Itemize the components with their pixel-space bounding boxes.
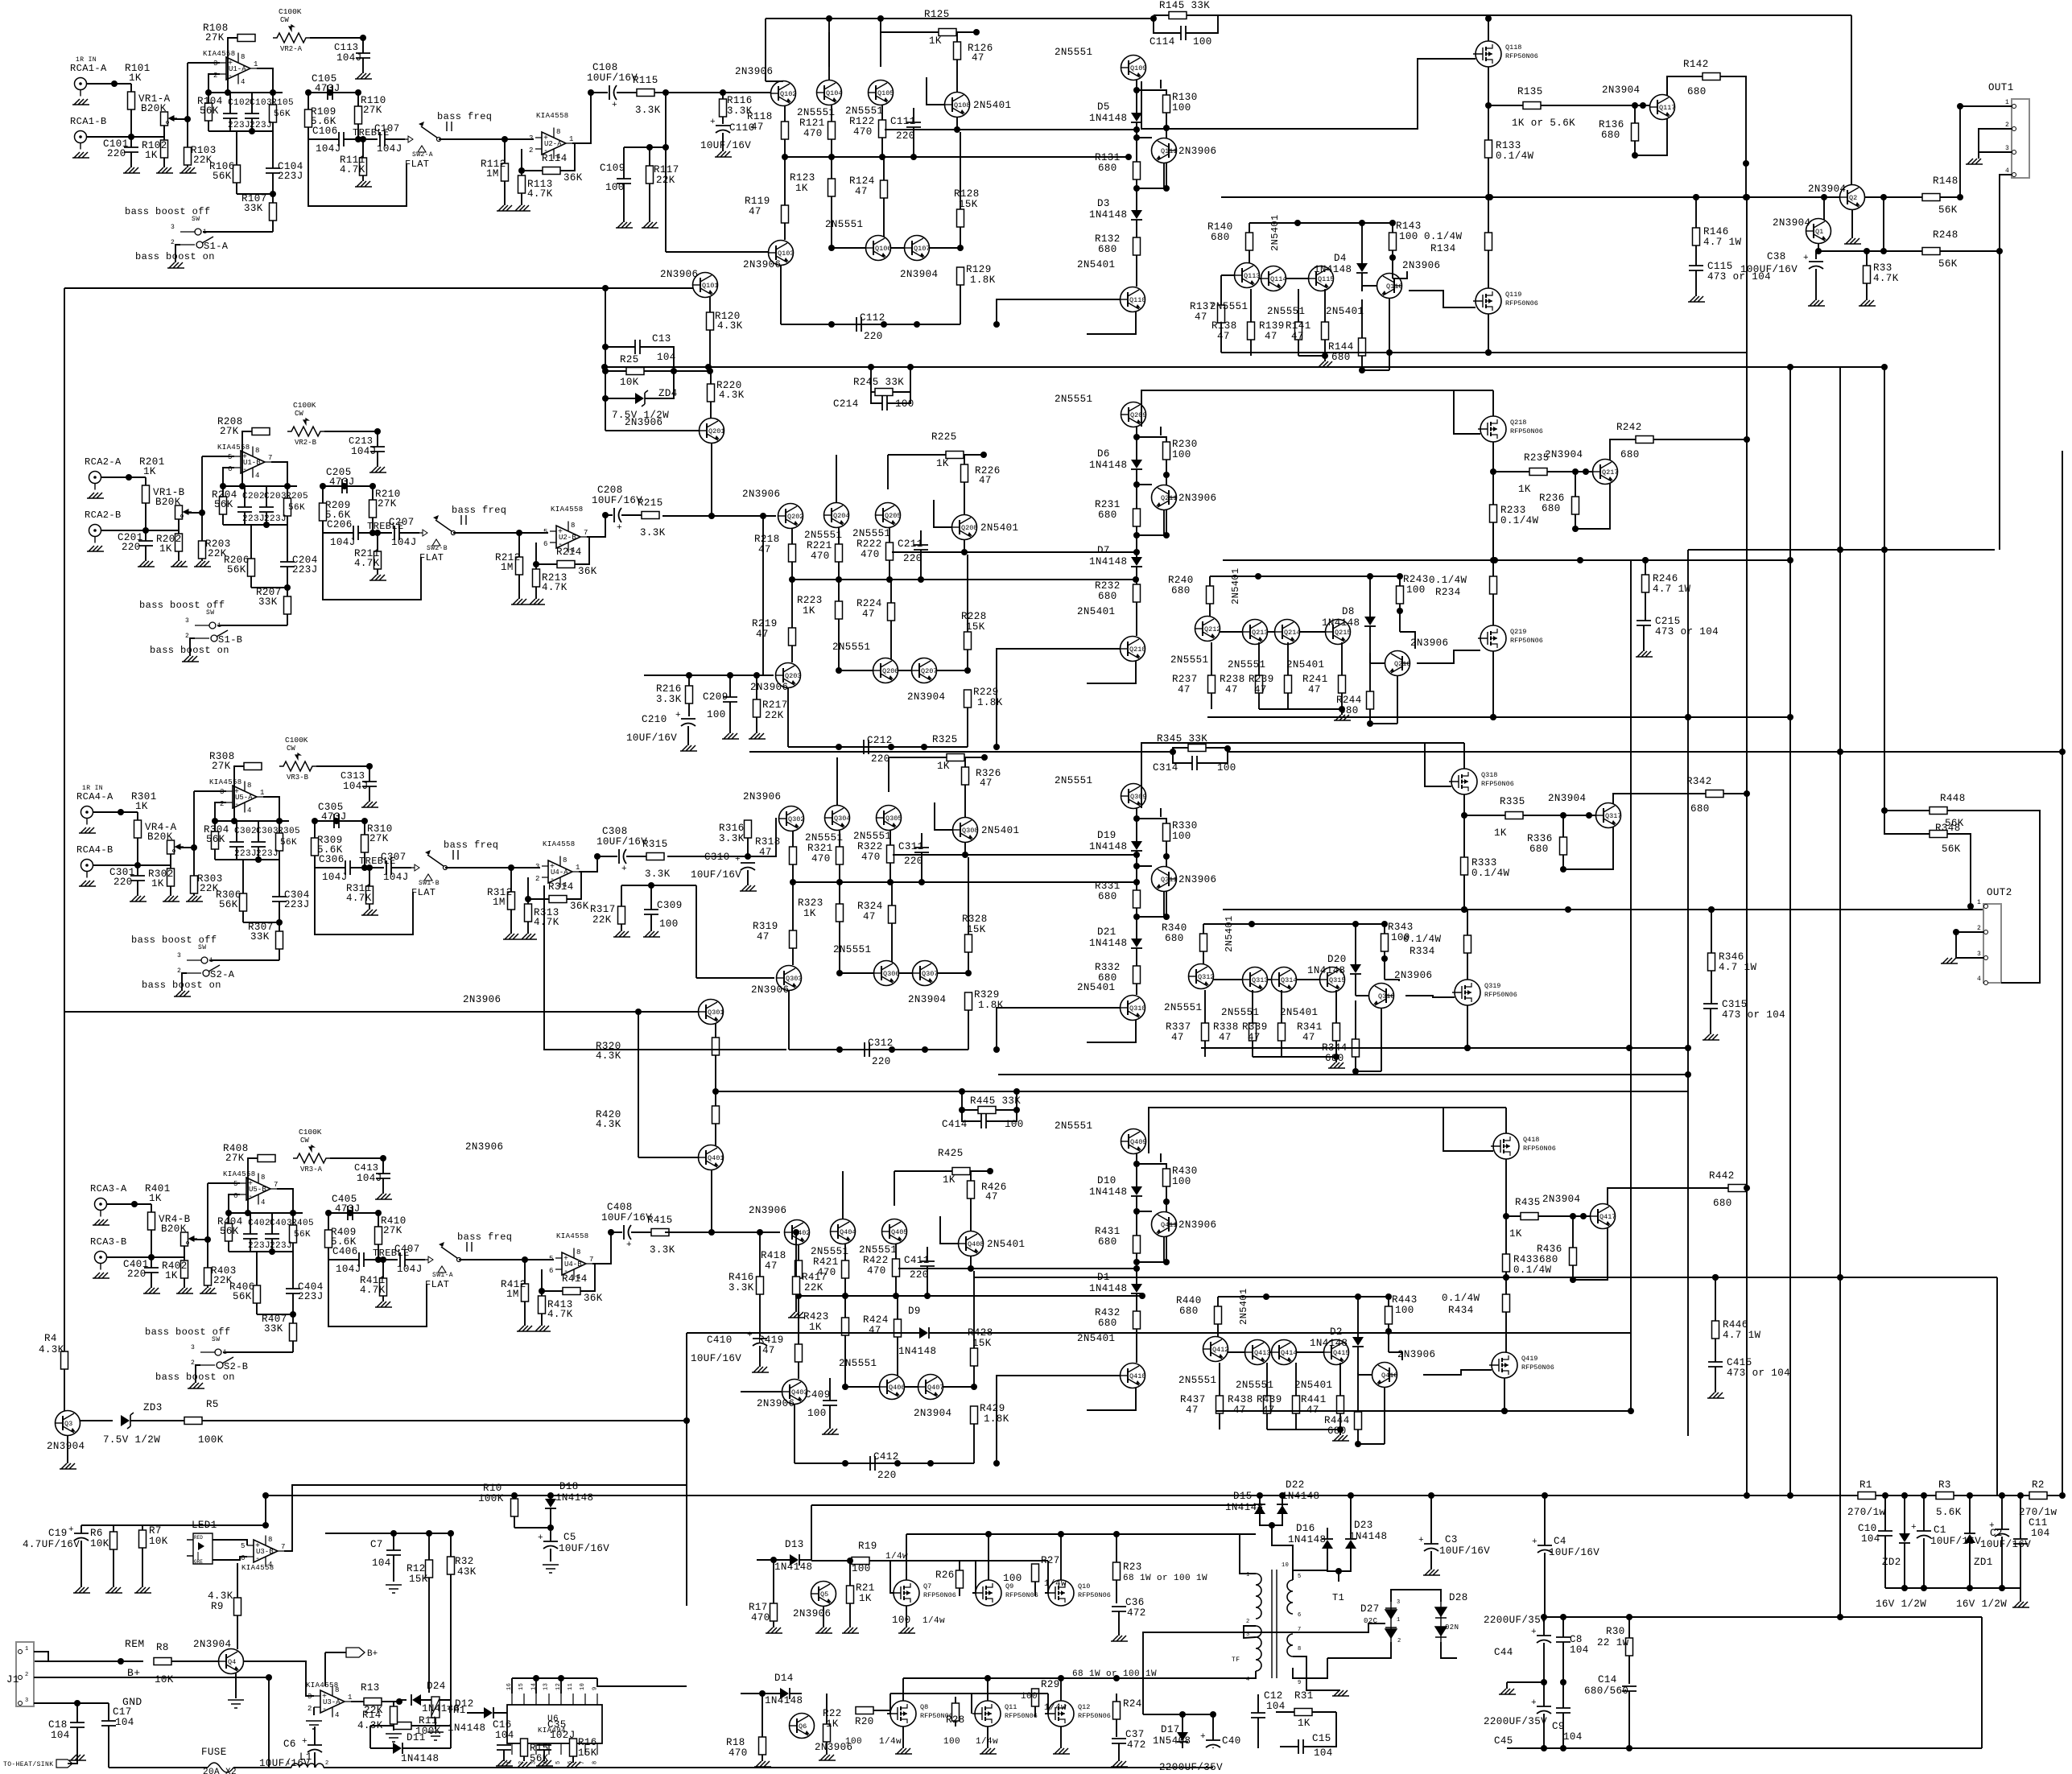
svg-text:104J: 104J xyxy=(336,52,362,64)
junction xyxy=(1787,714,1793,720)
svg-text:RCA4-B: RCA4-B xyxy=(76,844,114,856)
wire xyxy=(1223,1277,1840,1278)
capacitor C410 10UF/16V xyxy=(753,1339,767,1346)
transistor Q413 xyxy=(1245,1340,1271,1365)
svg-text:1K: 1K xyxy=(936,458,949,469)
junction xyxy=(74,1700,80,1706)
ground xyxy=(1688,296,1705,302)
svg-text:220: 220 xyxy=(127,1269,147,1280)
transistor Q310 2N5401 xyxy=(1121,996,1146,1021)
svg-text:C210: C210 xyxy=(642,714,667,725)
wire xyxy=(1883,197,1884,251)
svg-text:2200UF/35V: 2200UF/35V xyxy=(1159,1762,1223,1773)
junction xyxy=(842,1384,848,1390)
wire xyxy=(518,533,520,557)
junction xyxy=(879,154,885,160)
wire xyxy=(1299,631,1326,633)
resistor R235 1K xyxy=(1529,468,1547,476)
junction xyxy=(1133,185,1140,192)
wire xyxy=(151,1230,152,1257)
svg-text:100K: 100K xyxy=(478,1493,504,1504)
junction xyxy=(984,1675,991,1681)
svg-text:104: 104 xyxy=(495,1730,514,1741)
wire xyxy=(1357,1373,1359,1412)
pin 4 OUT1 xyxy=(2012,173,2016,177)
wire xyxy=(1116,1580,1117,1603)
wire xyxy=(1136,1262,1137,1284)
wire xyxy=(667,819,777,856)
wire xyxy=(1136,255,1137,287)
svg-text:1N4148: 1N4148 xyxy=(1349,1531,1387,1542)
svg-text:104J: 104J xyxy=(351,446,377,457)
wire xyxy=(439,138,534,140)
wire xyxy=(187,119,188,147)
wire xyxy=(903,1671,1256,1678)
wire xyxy=(1136,602,1137,636)
wire xyxy=(228,1213,229,1223)
diode D27 xyxy=(1390,1602,1392,1642)
wire xyxy=(1249,222,1393,224)
svg-text:2N3906: 2N3906 xyxy=(749,1205,786,1216)
ground xyxy=(898,1628,915,1633)
wire xyxy=(654,92,771,93)
junction xyxy=(262,1522,269,1529)
wire xyxy=(741,1391,782,1392)
svg-text:100: 100 xyxy=(1172,102,1191,113)
svg-text:3: 3 xyxy=(220,788,224,796)
wire xyxy=(236,821,237,842)
svg-text:Q303: Q303 xyxy=(786,975,802,983)
capacitor C13 104 xyxy=(635,340,640,354)
wire xyxy=(113,1525,114,1532)
transistor Q215 xyxy=(1326,620,1352,645)
transistor Q305 2N5551 xyxy=(877,806,902,831)
svg-text:7: 7 xyxy=(274,1181,278,1189)
junction xyxy=(284,483,291,489)
svg-text:1K: 1K xyxy=(151,878,164,889)
junction xyxy=(1642,557,1649,563)
junction xyxy=(1501,1408,1508,1414)
svg-text:0.1/4W: 0.1/4W xyxy=(1513,1264,1552,1276)
wire xyxy=(234,766,244,821)
wire xyxy=(1141,743,1425,808)
resistor R18 470 xyxy=(759,1737,766,1755)
wire xyxy=(956,32,958,42)
wire xyxy=(1209,576,1211,586)
svg-text:C6: C6 xyxy=(283,1739,296,1750)
svg-text:R422: R422 xyxy=(863,1255,889,1266)
transistor Q116 2N3906 xyxy=(1377,274,1403,299)
capacitor C5 10UF/16V xyxy=(543,1541,558,1549)
wire xyxy=(428,1533,430,1560)
capacitor C14 680/560 xyxy=(1622,1686,1637,1691)
junction xyxy=(1249,921,1255,927)
wire xyxy=(272,194,274,203)
wire xyxy=(968,952,969,973)
resistor R443 100 xyxy=(1385,1306,1393,1324)
wire xyxy=(849,1561,851,1586)
capacitor C15 104 xyxy=(1298,1739,1303,1754)
potentiometer VR2-B xyxy=(287,401,324,447)
wire xyxy=(1259,278,1261,279)
resistor R2 270/1w xyxy=(2029,1492,2047,1500)
wire xyxy=(1715,1339,1716,1362)
resistor R246 4.7 1W xyxy=(1642,575,1649,592)
svg-text:R325: R325 xyxy=(932,734,958,745)
svg-text:R25: R25 xyxy=(620,354,639,365)
svg-text:C2: C2 xyxy=(1990,1528,2003,1539)
junction xyxy=(1632,102,1638,109)
resistor R211 4.7K xyxy=(374,551,382,569)
svg-text:100: 100 xyxy=(1395,1305,1414,1316)
svg-text:100: 100 xyxy=(1172,831,1191,842)
wire xyxy=(550,1528,551,1541)
svg-text:3.3K: 3.3K xyxy=(727,105,753,117)
svg-text:104: 104 xyxy=(51,1730,70,1741)
junction xyxy=(1685,1045,1691,1051)
wire xyxy=(729,702,731,733)
mosfet Q12 RFP50N06 xyxy=(1046,1701,1111,1727)
resistor R23 68 1W xyxy=(1113,1562,1121,1580)
resistor R317 22K xyxy=(618,906,625,924)
wire xyxy=(171,118,188,120)
op-amp U3-B xyxy=(241,1536,285,1570)
svg-text:220: 220 xyxy=(864,331,883,342)
svg-text:R32: R32 xyxy=(455,1556,474,1567)
ground xyxy=(980,1748,997,1754)
wire xyxy=(1954,1495,2029,1496)
svg-text:C16: C16 xyxy=(493,1719,512,1731)
svg-text:47: 47 xyxy=(1225,684,1238,695)
svg-text:1K: 1K xyxy=(1494,827,1507,839)
svg-text:R142: R142 xyxy=(1683,59,1709,70)
svg-text:R130: R130 xyxy=(1172,92,1198,103)
capacitor C101 220 xyxy=(124,147,138,152)
junction xyxy=(1967,903,1974,910)
junction xyxy=(1058,1531,1064,1537)
svg-text:B20K: B20K xyxy=(141,103,167,114)
wire xyxy=(378,1244,379,1260)
svg-text:RFP50N06: RFP50N06 xyxy=(1523,1145,1556,1153)
resistor R17 470 xyxy=(770,1603,778,1621)
junction xyxy=(1389,254,1396,261)
svg-text:6: 6 xyxy=(543,540,547,548)
svg-text:+: + xyxy=(1532,1537,1537,1547)
junction xyxy=(968,1265,974,1272)
svg-text:R246: R246 xyxy=(1653,573,1678,584)
junction xyxy=(1255,573,1261,580)
junction xyxy=(325,1210,332,1216)
wire xyxy=(766,18,1154,19)
svg-text:R6: R6 xyxy=(90,1528,103,1539)
junction xyxy=(602,395,609,402)
junction xyxy=(1464,1045,1471,1051)
wire xyxy=(215,802,226,821)
junction xyxy=(987,1168,993,1174)
wire xyxy=(377,452,378,467)
svg-text:D15: D15 xyxy=(1233,1491,1253,1502)
svg-text:SW2-A: SW2-A xyxy=(412,151,433,159)
svg-text:8: 8 xyxy=(241,53,245,61)
wire xyxy=(892,923,913,973)
svg-text:1N4148: 1N4148 xyxy=(1089,460,1127,471)
wire xyxy=(1815,251,1817,259)
svg-text:R115: R115 xyxy=(633,75,658,86)
junction xyxy=(1999,1585,2005,1591)
resistor R306 56K xyxy=(240,893,247,911)
wire xyxy=(208,130,273,132)
ground xyxy=(93,1219,109,1225)
wire xyxy=(207,1240,208,1268)
svg-text:4.7K: 4.7K xyxy=(542,582,568,593)
resistor R240 680 xyxy=(1207,586,1214,604)
wire xyxy=(243,1661,314,1696)
svg-text:2: 2 xyxy=(191,1359,195,1367)
wire xyxy=(973,1271,975,1348)
wire xyxy=(1136,948,1137,966)
svg-text:4: 4 xyxy=(241,78,245,86)
svg-text:2N5401: 2N5401 xyxy=(1238,1288,1249,1325)
svg-text:ZD2: ZD2 xyxy=(1882,1557,1901,1568)
wire xyxy=(894,1171,895,1206)
wire xyxy=(1163,510,1165,535)
svg-text:1N4148: 1N4148 xyxy=(1310,1338,1348,1349)
wire xyxy=(970,1198,972,1231)
svg-text:100: 100 xyxy=(1406,584,1426,596)
svg-text:56K: 56K xyxy=(219,899,238,910)
junction xyxy=(245,1210,251,1216)
svg-text:56K: 56K xyxy=(206,834,225,845)
wire xyxy=(1341,642,1343,675)
wire xyxy=(459,1259,554,1260)
wire xyxy=(645,371,674,398)
ground xyxy=(1317,361,1334,367)
junction xyxy=(1224,745,1231,752)
svg-text:473J: 473J xyxy=(315,83,341,94)
resistor R224 47 xyxy=(888,603,895,621)
wire xyxy=(1572,1216,1574,1248)
resistor R417 22K xyxy=(793,1277,800,1294)
resistor R205 56K xyxy=(284,498,291,516)
capacitor C113 104J xyxy=(356,53,370,58)
wire xyxy=(799,1295,1142,1297)
connector RCA2-B xyxy=(89,525,108,543)
svg-text:16V 1/2W: 16V 1/2W xyxy=(1956,1599,2007,1610)
transistor Q204 2N5551 xyxy=(824,503,850,528)
wire xyxy=(369,904,370,910)
op-amp U5-B xyxy=(233,1174,278,1207)
svg-text:2: 2 xyxy=(1246,1619,1250,1625)
wire xyxy=(756,675,757,699)
svg-text:1K: 1K xyxy=(943,1174,956,1186)
resistor R3 5.6K xyxy=(1936,1492,1954,1500)
wire xyxy=(1136,917,1137,939)
wire xyxy=(292,1314,294,1323)
wire xyxy=(826,1694,828,1724)
svg-text:4: 4 xyxy=(335,1711,339,1719)
svg-text:10UF/16V: 10UF/16V xyxy=(1980,1539,2031,1550)
wire xyxy=(1136,1164,1137,1186)
ground xyxy=(2012,1602,2029,1607)
wire xyxy=(344,138,378,140)
wire xyxy=(1160,80,1162,89)
svg-text:100: 100 xyxy=(1172,449,1191,460)
wire xyxy=(1045,1561,1048,1593)
junction xyxy=(789,576,795,583)
wire xyxy=(1562,1617,1564,1637)
wire xyxy=(1467,910,1468,935)
resistor R338 47 xyxy=(1249,1023,1257,1041)
wire xyxy=(1137,865,1152,867)
wire xyxy=(1260,1514,1282,1525)
wire xyxy=(1695,245,1697,266)
resistor R11 100K xyxy=(394,1722,411,1730)
wire xyxy=(1430,1551,1432,1570)
wire xyxy=(369,786,370,802)
svg-text:2N5551: 2N5551 xyxy=(1055,47,1092,58)
wire xyxy=(1339,1413,1341,1430)
junction xyxy=(981,754,988,761)
transistor Q410 2N5401 xyxy=(1121,1364,1146,1388)
svg-text:R239: R239 xyxy=(1249,674,1274,685)
capacitor C204 223J xyxy=(280,562,295,567)
wire xyxy=(1281,990,1282,1023)
connector RCA3-B xyxy=(95,1252,114,1270)
junction xyxy=(1837,547,1843,553)
ground xyxy=(1636,651,1653,657)
svg-text:R33: R33 xyxy=(1873,262,1892,274)
svg-text:R217: R217 xyxy=(762,699,788,711)
wire xyxy=(357,124,359,139)
junction xyxy=(1389,220,1396,226)
svg-text:2N5551: 2N5551 xyxy=(833,944,871,955)
svg-text:C113: C113 xyxy=(334,42,358,53)
svg-text:1/4w: 1/4w xyxy=(1044,1579,1067,1589)
wire xyxy=(973,1366,975,1387)
ground xyxy=(138,561,155,567)
resistor R245 33K xyxy=(875,389,893,396)
wire xyxy=(435,1718,436,1729)
svg-text:1K or 5.6K: 1K or 5.6K xyxy=(1512,118,1575,129)
junction xyxy=(1957,194,1963,200)
junction xyxy=(1163,185,1170,192)
wire xyxy=(621,514,642,516)
svg-text:1K: 1K xyxy=(149,1193,162,1204)
wire xyxy=(970,1171,972,1181)
junction xyxy=(1541,1679,1547,1685)
svg-text:223J: 223J xyxy=(278,171,303,182)
wire xyxy=(845,1386,880,1388)
svg-text:1N4148: 1N4148 xyxy=(765,1695,803,1706)
wire xyxy=(1166,128,1167,138)
junction xyxy=(266,1674,272,1681)
wire xyxy=(1505,1159,1507,1277)
wire xyxy=(362,139,364,158)
junction xyxy=(212,818,218,824)
wire xyxy=(747,870,749,885)
wire xyxy=(1357,1365,1359,1375)
wire xyxy=(1228,751,1840,753)
junction xyxy=(1485,15,1492,22)
svg-text:R19: R19 xyxy=(858,1541,877,1552)
transistor Q303 2N3906 xyxy=(777,966,803,991)
wire xyxy=(1269,1351,1272,1353)
transistor Q5 2N3906 xyxy=(811,1582,836,1607)
svg-text:104: 104 xyxy=(1314,1747,1333,1759)
wire xyxy=(279,901,280,922)
svg-text:R421: R421 xyxy=(813,1256,839,1268)
wire xyxy=(1904,1543,1905,1588)
svg-text:R11: R11 xyxy=(419,1715,438,1727)
svg-text:2N3906: 2N3906 xyxy=(1178,146,1216,157)
wire xyxy=(1467,1005,1468,1048)
junction xyxy=(369,530,376,536)
resistor R303 22K xyxy=(191,876,198,893)
wire xyxy=(393,1533,394,1550)
svg-text:R336: R336 xyxy=(1527,833,1553,844)
wire xyxy=(145,546,147,561)
svg-text:2N3906: 2N3906 xyxy=(1178,1219,1216,1231)
wire xyxy=(228,1241,229,1252)
svg-text:47: 47 xyxy=(985,1191,998,1203)
svg-text:KIA4558: KIA4558 xyxy=(223,1170,256,1178)
svg-text:680: 680 xyxy=(1339,705,1359,716)
resistor R124 47 xyxy=(881,180,888,198)
capacitor C37 472 xyxy=(1112,1739,1126,1743)
wire bus xyxy=(2062,451,2063,1496)
wire xyxy=(1228,1351,1245,1353)
svg-text:ZD3: ZD3 xyxy=(143,1402,163,1413)
wire xyxy=(1136,567,1137,584)
svg-text:C408: C408 xyxy=(607,1202,633,1213)
junction xyxy=(380,1256,386,1263)
wire xyxy=(370,1725,394,1727)
diode D5 1N4148 xyxy=(1131,113,1142,122)
svg-text:13: 13 xyxy=(543,1683,550,1690)
mosfet Q319 RFP50N06 xyxy=(1452,980,1517,1005)
svg-text:C410: C410 xyxy=(707,1335,733,1346)
wire xyxy=(287,516,288,525)
ground xyxy=(375,1302,392,1307)
svg-text:Q2: Q2 xyxy=(1849,194,1857,202)
svg-text:1K: 1K xyxy=(795,183,808,194)
svg-text:470: 470 xyxy=(853,126,873,138)
wire xyxy=(1613,794,1706,804)
svg-text:+: + xyxy=(538,1533,543,1543)
ground xyxy=(156,167,173,173)
wire xyxy=(1361,286,1363,291)
junction xyxy=(1367,720,1373,727)
svg-text:56K: 56K xyxy=(1938,204,1958,216)
junction xyxy=(518,167,525,174)
resistor R208 27K xyxy=(252,428,270,435)
wire xyxy=(1267,1429,1340,1430)
wire xyxy=(638,1012,639,1157)
svg-text:R216: R216 xyxy=(656,683,682,695)
ground xyxy=(613,931,630,937)
wire xyxy=(1357,1347,1359,1365)
junction xyxy=(1901,1585,1908,1591)
wire xyxy=(831,139,832,157)
svg-text:C414: C414 xyxy=(942,1119,968,1130)
wire xyxy=(287,588,288,596)
ground xyxy=(228,1700,244,1708)
svg-text:RCA2-B: RCA2-B xyxy=(85,510,122,521)
svg-text:9: 9 xyxy=(1298,1680,1302,1686)
resistor R130 100 xyxy=(1163,95,1170,113)
wire xyxy=(101,477,147,478)
junction xyxy=(522,1256,528,1263)
